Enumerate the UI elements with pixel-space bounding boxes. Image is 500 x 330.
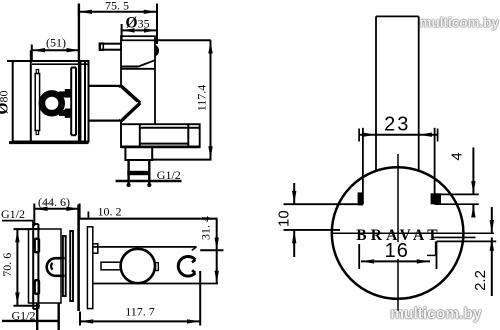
10.2 tick <box>87 212 89 219</box>
ledge corner block left <box>358 192 364 205</box>
reference line top for 117.4 <box>155 39 211 41</box>
riser bar left edge <box>375 16 377 171</box>
outlet thread band <box>127 171 150 175</box>
slot line right of centerline <box>433 236 476 238</box>
holder knob circle <box>121 249 155 283</box>
holder body bottom line <box>93 283 218 285</box>
spout bar inner top line <box>140 127 200 129</box>
dimension 10 upper segment <box>293 183 295 204</box>
70.6 extension line top <box>14 228 41 230</box>
svg-text:multicom.by: multicom.by <box>419 15 499 30</box>
SECTION: right front view <box>276 16 497 312</box>
riser bar top edge <box>376 15 419 17</box>
knob internal diagonal <box>138 60 154 66</box>
ledge corner block right <box>431 193 441 204</box>
svg-text:G1/2: G1/2 <box>157 168 181 182</box>
right bracket plate caps <box>71 67 76 69</box>
dimension 117.4 line <box>210 40 212 159</box>
escutcheon edge plate 2 <box>70 231 73 301</box>
step notch vertical <box>435 241 437 255</box>
SECTION: watermarks <box>390 15 499 323</box>
bottom outlet tube right wall <box>58 303 60 330</box>
spout bar divider left <box>139 124 141 147</box>
spout bar divider right <box>187 124 189 147</box>
vertical centerline upper <box>397 154 399 242</box>
extension line left of 75.5 / right of (51) <box>78 4 80 62</box>
chevron upper diagonal (thick with inner sliver) <box>120 86 140 104</box>
watermark bottom right <box>390 306 482 323</box>
temperature lever <box>100 44 121 50</box>
box bottom thick edge <box>9 141 89 144</box>
svg-text:(44. 6): (44. 6) <box>38 195 70 209</box>
connector stub top <box>89 85 121 87</box>
outlet tube foot left <box>127 183 131 187</box>
plate column line 2 <box>37 224 39 309</box>
31.4 extension tick <box>200 249 223 251</box>
70.6 extension line bottom <box>14 305 41 307</box>
C-hook lower tip curl <box>192 270 195 273</box>
dimension 75.5 line <box>79 11 157 13</box>
dimension 117.7 line <box>80 320 200 322</box>
flange left edge <box>362 128 364 205</box>
valve rough-in box outer square <box>13 61 89 142</box>
cartridge lower arm <box>59 110 72 116</box>
extension line right of 75.5 and Ø35 <box>156 4 158 45</box>
bottom outlet tube left wall <box>36 303 38 330</box>
plate column caps <box>33 223 38 225</box>
chevron lower diagonal (thick with inner sliver) <box>121 103 140 121</box>
holder pin <box>156 263 159 271</box>
dimension (44.6) line <box>34 208 79 210</box>
dimension 4 lower segment <box>472 204 474 216</box>
svg-text:117. 7: 117. 7 <box>125 305 155 319</box>
holder stem <box>101 262 120 270</box>
faucet body left edge lower <box>120 121 122 125</box>
dimension 16 line <box>361 260 430 262</box>
svg-text:multicom.by: multicom.by <box>390 306 482 323</box>
svg-text:16: 16 <box>385 240 409 262</box>
svg-text:(51): (51) <box>46 36 66 50</box>
plate column line 1 <box>32 224 34 309</box>
step notch horizontal <box>427 254 436 256</box>
extension line left of Ø35 <box>121 24 123 40</box>
wall plane line <box>77 205 80 312</box>
box top edge left extension <box>7 60 13 62</box>
C-hook upper tip curl <box>192 260 195 263</box>
spout bar outer <box>121 124 200 147</box>
SECTION: bottom-left top view <box>0 195 223 330</box>
svg-text:G1/2: G1/2 <box>1 207 25 221</box>
extension line left of (44.6) <box>33 204 35 227</box>
horizontal centerline <box>331 232 494 234</box>
svg-text:4: 4 <box>449 152 466 160</box>
outlet tube left wall <box>127 160 129 185</box>
watermark top right <box>419 15 499 30</box>
G1/2 top leader tick <box>32 221 34 226</box>
dimension 23 line <box>359 134 438 136</box>
ledge lower line right <box>435 203 479 205</box>
svg-text:Ø80: Ø80 <box>0 90 12 114</box>
dimension 4 upper segment <box>472 148 474 195</box>
right bracket plate line 2 <box>75 68 77 136</box>
holder wall bracket <box>93 244 98 253</box>
temperature lever end cap <box>99 43 103 50</box>
valve dome capsule <box>47 258 65 276</box>
outlet tube foot right <box>147 183 151 187</box>
holder cradle C-hook <box>178 257 195 277</box>
escutcheon edge plate 1 <box>63 236 66 296</box>
cartridge upper arm post <box>65 89 72 98</box>
vertical centerline lower <box>397 259 399 313</box>
svg-text:2.2: 2.2 <box>472 270 489 291</box>
spout bar inner bottom line <box>140 143 189 145</box>
left bracket plate bottom tip <box>36 131 38 135</box>
holder top line end hook <box>192 247 197 251</box>
ledge line left <box>284 203 363 205</box>
knob side bulge arc <box>155 46 158 55</box>
connector stub bottom <box>89 119 122 121</box>
adapter block <box>125 147 152 160</box>
valve cartridge ring <box>42 93 62 113</box>
dimension (51) line <box>32 49 80 51</box>
screw boss lower <box>34 279 41 295</box>
riser bar right edge <box>418 16 420 171</box>
svg-text:10. 2: 10. 2 <box>98 205 122 219</box>
faucet knob cap <box>121 36 155 40</box>
cartridge lower arm post <box>65 109 72 118</box>
reference line bottom for 117.4 <box>152 159 211 161</box>
mounting plate vertical line <box>30 50 32 142</box>
svg-text:23: 23 <box>384 114 410 136</box>
dimension Ø35 line <box>121 29 157 31</box>
valve dome inner arc <box>51 263 52 270</box>
spout bar bottom thick edge <box>121 145 200 148</box>
svg-text:75. 5: 75. 5 <box>105 0 129 13</box>
cartridge upper arm <box>59 91 72 97</box>
dimension 2.2 lower segment <box>491 237 493 296</box>
faucet body right edge <box>154 40 156 124</box>
dimension 70.6 line <box>16 229 18 306</box>
box right thick wall <box>78 62 82 143</box>
svg-text:70. 6: 70. 6 <box>0 253 14 277</box>
extension line right of (44.6) <box>79 204 81 219</box>
dimension 10 lower segment <box>293 230 295 257</box>
16 extension bracket left <box>358 244 360 269</box>
escutcheon front plate <box>87 227 92 309</box>
svg-text:117.4: 117.4 <box>195 85 209 112</box>
outlet tube right wall <box>148 160 150 185</box>
G1/2 bottom leader line <box>2 320 59 322</box>
23 dim end tick left <box>358 129 360 142</box>
right bracket plate line 1 <box>70 68 72 136</box>
faucet body top line <box>121 68 155 70</box>
flange right edge <box>434 128 436 195</box>
screw boss upper <box>34 238 41 254</box>
extension line right of 117.7 <box>199 271 201 326</box>
reference line for 10.2 and 31.4 <box>78 218 218 220</box>
escutcheon circle <box>332 167 464 299</box>
ledge upper line right <box>435 193 479 195</box>
step line right <box>437 240 497 242</box>
box inner top line <box>32 63 89 65</box>
svg-text:31. 4: 31. 4 <box>198 216 212 240</box>
dimension 2.2 upper segment <box>491 207 493 233</box>
extension line stub below 75.5 left end <box>78 4 80 16</box>
extension line left of 117.7 <box>79 312 81 326</box>
G1/2 top leader line <box>2 220 33 222</box>
dimension 31.4 line <box>216 219 218 284</box>
faucet body left edge upper <box>120 40 122 86</box>
left bracket plate top tip <box>36 70 38 74</box>
svg-text:10: 10 <box>276 210 293 227</box>
lower reference line left <box>284 229 341 231</box>
SECTION: top-left side view <box>0 0 213 187</box>
knob bottom partial line <box>121 66 138 68</box>
box inner right line <box>84 62 86 143</box>
23 dim end tick right <box>437 129 439 142</box>
16 extension bracket right / step edge <box>436 242 438 269</box>
left bracket plate <box>35 74 39 131</box>
holder body top line <box>93 246 197 248</box>
extension line left of (51) <box>31 45 33 62</box>
G1/2 leader line <box>116 180 182 182</box>
body outline <box>29 229 62 303</box>
